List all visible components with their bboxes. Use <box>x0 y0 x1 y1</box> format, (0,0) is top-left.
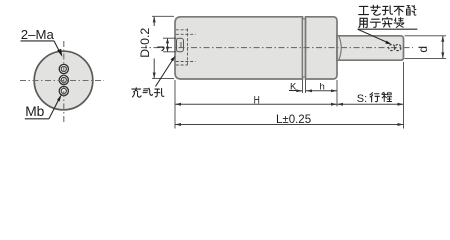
dimension L <box>175 114 404 126</box>
svg-text:2–Ma: 2–Ma <box>21 27 55 42</box>
vertical centerline <box>63 41 65 123</box>
dimension D-0.2 <box>138 16 174 78</box>
note 工艺孔不能 / 用于安装 with leader <box>358 5 418 44</box>
threaded hole (middle) <box>59 75 68 84</box>
svg-text:Mb: Mb <box>25 104 44 119</box>
dimension h <box>306 81 337 92</box>
cylinder tube body <box>175 17 303 79</box>
horizontal centerline <box>20 80 104 82</box>
svg-text:D-0.2: D-0.2 <box>138 28 152 58</box>
threaded hole Ma (top) <box>59 64 68 73</box>
dimension K <box>289 80 306 94</box>
rod end-face arc <box>339 36 341 59</box>
svg-text:h: h <box>320 81 325 92</box>
label 2-Ma <box>21 27 63 57</box>
svg-text:S:: S: <box>357 93 367 105</box>
dimension J <box>157 38 176 52</box>
svg-text:H: H <box>254 94 260 106</box>
leader and label 充气孔 <box>132 56 176 97</box>
extension line from rod end <box>403 62 405 129</box>
svg-text:d: d <box>416 46 430 53</box>
groove between tube and end cap <box>303 19 306 77</box>
dimension S (stroke) <box>337 92 404 105</box>
process hole at rod end <box>389 44 401 50</box>
label Mb <box>25 94 62 119</box>
dimension d <box>405 36 447 59</box>
dimension H <box>175 94 337 106</box>
threaded hole Mb (bottom) <box>59 86 68 95</box>
centerline of side view <box>141 47 413 49</box>
charging valve capsule <box>177 38 184 52</box>
end-view body circle <box>34 51 93 110</box>
extension line from end cap right edge <box>336 80 338 107</box>
hidden lines (dashed) near valve <box>176 29 196 66</box>
extension line from body left edge <box>174 80 176 129</box>
svg-text:L±0.25: L±0.25 <box>276 114 311 126</box>
piston rod <box>337 36 404 60</box>
end cap of tube <box>306 17 338 79</box>
